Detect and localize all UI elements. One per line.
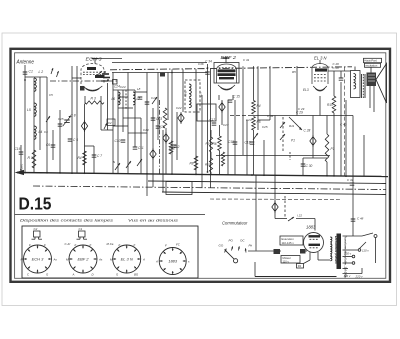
bus AVC top bbox=[110, 67, 352, 70]
wire v256 bbox=[255, 175, 257, 250]
svg-text:D: D bbox=[92, 273, 94, 277]
coil L6 bbox=[118, 92, 120, 105]
coil L9 bbox=[189, 84, 191, 97]
wire h108 bbox=[118, 107, 133, 109]
switch up3 bbox=[104, 123, 107, 129]
tube layout box bbox=[22, 226, 198, 278]
capacitor C15 bbox=[58, 124, 63, 126]
wire v252 bbox=[253, 130, 255, 175]
wire ech3 left blob bbox=[80, 86, 85, 91]
wire ech3 left bbox=[72, 77, 81, 79]
resistor R10 bbox=[332, 96, 336, 113]
wire ebf2 legs bbox=[219, 95, 233, 100]
wire v219 bbox=[219, 125, 221, 136]
wire v91 bbox=[84, 104, 86, 173]
wire h92 bbox=[135, 91, 147, 93]
resistor R3h bbox=[85, 101, 104, 104]
tube EL3N bbox=[312, 64, 328, 92]
svg-text:C10: C10 bbox=[115, 139, 121, 143]
gang link right bbox=[344, 67, 346, 176]
wire v211 bbox=[210, 130, 212, 137]
transformer laminations bbox=[362, 74, 366, 98]
wire antenna bbox=[24, 65, 26, 173]
wire v113 bbox=[112, 73, 114, 174]
capacitor C48 bbox=[351, 217, 364, 222]
wire h130 bbox=[101, 129, 113, 131]
diag to C28 bbox=[289, 117, 302, 130]
wire v210 bbox=[210, 69, 212, 188]
wire v283 dashed bbox=[282, 117, 284, 152]
svg-text:110 v: 110 v bbox=[362, 249, 369, 253]
wire h218b bbox=[296, 218, 315, 220]
svg-text:PO: PO bbox=[229, 239, 234, 243]
svg-text:C13: C13 bbox=[143, 128, 149, 132]
pins EBF2 labels bbox=[65, 242, 103, 277]
resistor R9 bbox=[209, 137, 212, 152]
osc padder box bbox=[113, 80, 118, 85]
switch secteur bbox=[362, 233, 377, 238]
capacitor C21 bbox=[339, 78, 344, 80]
capacitor C1 bbox=[23, 72, 28, 74]
rule under D15 bbox=[15, 214, 205, 216]
svg-text:F: F bbox=[134, 243, 136, 247]
pins ECH3 labels bbox=[21, 243, 58, 277]
page edge bbox=[2, 33, 397, 306]
ech3 grid arrow bbox=[97, 71, 102, 76]
capacitor C19 bbox=[250, 142, 255, 144]
trimmer icon C2 bbox=[32, 227, 43, 239]
svg-text:C 6: C 6 bbox=[73, 138, 78, 142]
gang C-ant bbox=[178, 112, 184, 124]
trimmer C3 bbox=[63, 116, 71, 126]
svg-text:F: F bbox=[44, 243, 46, 247]
svg-text:C 30: C 30 bbox=[306, 164, 313, 168]
svg-text:M.Ca: M.Ca bbox=[107, 242, 114, 246]
svg-text:R5: R5 bbox=[292, 70, 296, 74]
capacitor C16b bbox=[138, 97, 143, 99]
wire v243 bbox=[242, 66, 244, 155]
node ant bbox=[24, 79, 26, 81]
node b207 bbox=[207, 171, 209, 173]
wire hp2 bbox=[370, 68, 372, 73]
svg-text:R11: R11 bbox=[289, 124, 295, 128]
capacitor C11 bbox=[133, 147, 138, 149]
choke box bbox=[274, 249, 281, 254]
gang C-5 bbox=[150, 148, 156, 160]
resistor R5 bbox=[252, 117, 256, 131]
capacitor C9 bbox=[156, 126, 161, 128]
svg-text:R 3: R 3 bbox=[91, 97, 96, 101]
gang link bbox=[159, 100, 161, 174]
svg-text:130 v: 130 v bbox=[344, 252, 352, 256]
bus top3 bbox=[112, 62, 207, 64]
base ECH3 bbox=[24, 245, 52, 273]
svg-text:L6: L6 bbox=[112, 97, 116, 101]
capacitor C31 bbox=[347, 178, 354, 185]
wire l-col bbox=[33, 78, 35, 173]
node b334 bbox=[333, 175, 335, 177]
wire v315 top bbox=[314, 219, 316, 231]
wire v135 bbox=[134, 90, 136, 147]
node b346 bbox=[345, 175, 347, 177]
svg-text:C15: C15 bbox=[58, 117, 64, 121]
svg-text:A: A bbox=[155, 260, 158, 264]
resistor R2 bbox=[32, 150, 36, 168]
label Haut-Parleur box bbox=[364, 58, 382, 67]
execution box bbox=[280, 236, 303, 245]
svg-text:F: F bbox=[90, 243, 92, 247]
capacitor C34c bbox=[205, 72, 210, 74]
tube 1883 bbox=[304, 233, 324, 253]
wire v168 bbox=[167, 73, 169, 121]
capacitor C16c bbox=[145, 102, 150, 104]
wire v364 bbox=[363, 135, 365, 176]
svg-text:C1: C1 bbox=[29, 70, 33, 74]
switch S1 bbox=[46, 116, 50, 122]
node b72 bbox=[71, 172, 73, 174]
resistor R4 bbox=[252, 101, 256, 115]
wire h97 bbox=[118, 96, 128, 98]
svg-text:C 34: C 34 bbox=[205, 60, 212, 64]
resistor R4L bbox=[83, 151, 87, 165]
svg-text:C18: C18 bbox=[228, 140, 234, 144]
svg-text:L5: L5 bbox=[27, 108, 31, 112]
ground bus bbox=[15, 170, 389, 177]
switch up2 bbox=[57, 71, 59, 77]
wire el3n top bbox=[319, 60, 321, 64]
svg-text:R6: R6 bbox=[213, 142, 217, 146]
wire v275 bbox=[274, 116, 276, 216]
svg-text:C 28: C 28 bbox=[304, 129, 311, 133]
base EBF2 bbox=[69, 245, 97, 273]
speaker driver bbox=[367, 73, 377, 87]
node osc bbox=[171, 72, 173, 74]
switch I1 bbox=[288, 217, 294, 221]
svg-text:Vus en au dessous: Vus en au dessous bbox=[128, 219, 178, 223]
svg-text:C27: C27 bbox=[223, 123, 229, 127]
wire v270 bbox=[269, 66, 271, 120]
gang C-4 bbox=[310, 135, 316, 147]
coil L9b bbox=[189, 98, 191, 108]
wire v247 bbox=[246, 120, 248, 175]
svg-text:C1: C1 bbox=[79, 227, 83, 231]
svg-text:C23: C23 bbox=[246, 118, 252, 122]
node ebf2 in bbox=[207, 67, 209, 69]
power transformer core bbox=[337, 234, 342, 270]
tap lever bbox=[360, 242, 367, 249]
wire v72 bbox=[71, 66, 73, 173]
wire h126 bbox=[113, 125, 128, 127]
wire sec top bbox=[343, 235, 363, 237]
ech3 grid cluster bbox=[101, 71, 110, 81]
capacitor C7 bbox=[92, 146, 97, 173]
wire sec bottom bbox=[343, 268, 363, 274]
svg-text:C36: C36 bbox=[198, 62, 204, 66]
gang C-if bbox=[219, 101, 225, 113]
resistor R3b bbox=[163, 108, 167, 128]
wire v60 bbox=[59, 110, 61, 173]
svg-text:Transformateur d'alim. 110-245: Transformateur d'alim. 110-245v bbox=[343, 236, 347, 279]
wire v128 bbox=[127, 73, 129, 174]
outer frame bbox=[11, 49, 391, 282]
box below bus bbox=[166, 182, 192, 195]
gang C-osc bbox=[81, 120, 87, 132]
wire bottom power bbox=[255, 276, 337, 278]
gang C-2 bbox=[163, 132, 169, 144]
bus3 dashdot bbox=[33, 186, 386, 190]
coil L1 bbox=[34, 78, 36, 91]
svg-text:Disposition des contacts de: Disposition des contacts des lampes bbox=[20, 219, 113, 223]
svg-text:C 29: C 29 bbox=[298, 107, 305, 111]
wire v172 bbox=[171, 69, 173, 174]
wire v196 bbox=[195, 69, 197, 174]
svg-text:excitation: excitation bbox=[366, 64, 378, 68]
wire v327 bbox=[326, 116, 328, 135]
capacitor C12 bbox=[172, 145, 177, 147]
switch S7 bbox=[280, 134, 285, 140]
svg-text:R8: R8 bbox=[190, 162, 194, 166]
wire h158 bbox=[303, 157, 327, 159]
wire power feeds bbox=[275, 215, 287, 219]
if1 box bbox=[185, 80, 200, 112]
wire v334 bbox=[333, 71, 335, 96]
bus B+ bbox=[250, 115, 353, 117]
wire v123 bbox=[122, 90, 124, 132]
speaker wires bbox=[370, 86, 374, 112]
wire h155 bbox=[216, 155, 330, 157]
transformer primary bumps bbox=[330, 237, 332, 261]
svg-text:L4: L4 bbox=[39, 130, 43, 134]
svg-text:C 20: C 20 bbox=[333, 66, 340, 70]
svg-text:R2: R2 bbox=[298, 264, 302, 268]
svg-text:C9: C9 bbox=[161, 125, 165, 129]
bus2 bbox=[148, 181, 386, 184]
wire v77 bbox=[76, 66, 78, 173]
wire v264 bbox=[263, 140, 265, 175]
node b252 bbox=[251, 174, 253, 176]
wire v353 bbox=[352, 116, 354, 237]
svg-text:C 7: C 7 bbox=[97, 154, 102, 158]
node b25 bbox=[24, 172, 26, 174]
pins 1883 labels bbox=[155, 243, 190, 264]
svg-text:R 1: R 1 bbox=[28, 156, 33, 160]
svg-text:Enroulement primaire: Enroulement primaire bbox=[334, 236, 338, 264]
resistor box R2x bbox=[297, 264, 304, 269]
svg-text:R4: R4 bbox=[257, 104, 261, 108]
wire v177 bbox=[176, 112, 178, 160]
wire h133 bbox=[128, 132, 147, 134]
svg-text:F: F bbox=[29, 243, 31, 247]
tube EBF2 bbox=[217, 64, 237, 90]
svg-text:R10: R10 bbox=[327, 103, 333, 107]
wire h118 bbox=[123, 117, 141, 119]
speaker cone bbox=[376, 64, 387, 104]
switch S5 bbox=[253, 133, 258, 140]
svg-text:Commutateur: Commutateur bbox=[222, 221, 248, 226]
svg-text:F: F bbox=[119, 243, 121, 247]
capacitor C17L bbox=[212, 123, 217, 125]
coil L7 bbox=[133, 92, 135, 105]
svg-text:L 2: L 2 bbox=[39, 70, 44, 74]
svg-text:R4: R4 bbox=[78, 156, 82, 160]
potentiometer P1 bbox=[325, 134, 329, 162]
svg-text:S: S bbox=[113, 160, 115, 164]
svg-text:C 31: C 31 bbox=[347, 178, 354, 182]
node b172 bbox=[171, 173, 173, 175]
svg-text:A: A bbox=[142, 258, 145, 262]
wire v320 bbox=[319, 96, 321, 116]
wire v183 bbox=[182, 69, 184, 112]
svg-text:C 31: C 31 bbox=[243, 58, 250, 62]
wire ech3 legs bbox=[85, 96, 101, 104]
wire v346 bbox=[345, 100, 347, 176]
wire v202 bbox=[201, 95, 203, 188]
wire h71 out bbox=[328, 70, 351, 72]
tap 240 bbox=[343, 268, 349, 270]
svg-text:C 15: C 15 bbox=[233, 95, 240, 99]
capacitor C18 bbox=[233, 142, 238, 144]
wire v108 bbox=[107, 83, 109, 130]
wire v313 bbox=[312, 116, 314, 159]
svg-text:R5: R5 bbox=[257, 120, 261, 124]
svg-text:C6: C6 bbox=[46, 143, 50, 147]
svg-text:220 v: 220 v bbox=[355, 275, 364, 279]
wire v147 bbox=[146, 73, 148, 197]
capacitor C6b bbox=[68, 139, 73, 141]
wire v47 bbox=[46, 77, 48, 173]
svg-text:ECH 3: ECH 3 bbox=[86, 57, 102, 63]
wire v166 bbox=[165, 128, 167, 174]
node b264 bbox=[263, 174, 265, 176]
svg-text:C2: C2 bbox=[34, 227, 38, 231]
svg-text:EL 3 N: EL 3 N bbox=[314, 56, 327, 61]
trimmer icon C1 bbox=[77, 227, 88, 239]
svg-text:1883: 1883 bbox=[168, 259, 178, 264]
svg-text:C24: C24 bbox=[120, 85, 126, 89]
wire h120r bbox=[258, 119, 270, 121]
padder blob bbox=[160, 73, 165, 77]
wire h77 bbox=[25, 76, 47, 78]
switch S4b bbox=[152, 97, 157, 104]
svg-text:110 v: 110 v bbox=[283, 259, 290, 263]
svg-text:C2: C2 bbox=[108, 121, 112, 125]
wire v327b bbox=[326, 162, 328, 176]
svg-text:Moteur: Moteur bbox=[283, 256, 291, 260]
pins EL3N labels bbox=[107, 242, 146, 277]
anode cap EBF2 bbox=[223, 58, 230, 63]
coil core bbox=[125, 90, 127, 110]
svg-text:I 22: I 22 bbox=[297, 214, 302, 218]
node b147 bbox=[146, 173, 148, 175]
capacitor C30 bbox=[301, 158, 306, 176]
wire grid lead bbox=[96, 58, 122, 60]
svg-text:AVC: AVC bbox=[184, 90, 188, 98]
svg-text:C25: C25 bbox=[262, 125, 268, 129]
bus grid dashdot bbox=[50, 80, 118, 82]
svg-text:L8: L8 bbox=[137, 87, 141, 91]
wire hv line bbox=[248, 250, 307, 252]
capacitor C8 bbox=[151, 118, 156, 120]
svg-text:GO: GO bbox=[219, 244, 224, 248]
svg-text:C 8: C 8 bbox=[71, 114, 76, 118]
svg-text:P1: P1 bbox=[291, 139, 295, 143]
svg-text:EBF 2: EBF 2 bbox=[77, 257, 89, 262]
switch S4 bbox=[137, 159, 142, 166]
inner frame bbox=[15, 53, 386, 278]
svg-text:As: As bbox=[98, 258, 103, 262]
wire v228 bbox=[227, 100, 229, 175]
wire h115 ext bbox=[230, 115, 250, 117]
tap 130 bbox=[343, 252, 355, 258]
node b327 bbox=[326, 175, 328, 177]
capacitor C10 bbox=[121, 140, 126, 142]
wire v297 bbox=[296, 66, 298, 116]
svg-text:Terre: Terre bbox=[20, 163, 24, 171]
wire v40 bbox=[39, 77, 41, 150]
svg-text:110-125 v: 110-125 v bbox=[282, 241, 295, 245]
resistor R12 bbox=[169, 141, 173, 154]
resistor R6 bbox=[218, 136, 222, 151]
tube EBF2 box bbox=[214, 63, 239, 84]
trimbox bbox=[107, 119, 115, 126]
wire h145L bbox=[85, 145, 95, 147]
svg-text:C 48: C 48 bbox=[357, 217, 364, 221]
svg-text:C14: C14 bbox=[151, 96, 157, 100]
svg-text:F: F bbox=[165, 244, 167, 248]
capacitor C15b bbox=[228, 100, 233, 102]
switch S3 bbox=[126, 161, 131, 168]
wire v290 bbox=[289, 152, 291, 160]
gang C-3 bbox=[272, 201, 278, 213]
wire v207 bbox=[207, 64, 209, 172]
svg-text:C19: C19 bbox=[245, 141, 251, 145]
base 1883 bbox=[159, 248, 186, 275]
wire v118 bbox=[117, 90, 119, 174]
wire v101 bbox=[100, 99, 102, 130]
tap 110 bbox=[343, 249, 370, 253]
wire v285 low bbox=[284, 196, 286, 218]
wire rect legs bbox=[304, 252, 331, 264]
node b47 bbox=[46, 172, 48, 174]
capacitor C6 bbox=[51, 130, 56, 160]
switch up1 bbox=[51, 68, 53, 74]
svg-text:Antenne: Antenne bbox=[16, 60, 35, 66]
svg-text:C17: C17 bbox=[210, 118, 216, 122]
tube ECH3 bbox=[81, 64, 105, 91]
wire v235 bbox=[234, 100, 236, 175]
wire v253t bbox=[253, 66, 255, 100]
switch S2 bbox=[115, 163, 120, 170]
wire v341b bbox=[340, 82, 342, 176]
wire v141 bbox=[140, 118, 142, 174]
node b91 bbox=[84, 172, 86, 174]
wire v255b bbox=[254, 262, 256, 277]
wire hp1 bbox=[354, 67, 356, 71]
wire h90 bbox=[113, 89, 135, 91]
wire v222 bbox=[221, 100, 223, 125]
svg-text:F: F bbox=[75, 243, 77, 247]
svg-text:110 v: 110 v bbox=[344, 274, 351, 278]
svg-text:C4: C4 bbox=[44, 130, 48, 134]
tap 220 bbox=[343, 262, 355, 265]
wire v163 bbox=[162, 130, 164, 192]
bus top2 bbox=[112, 72, 207, 74]
choke box2 bbox=[300, 249, 306, 254]
moteur box bbox=[281, 256, 300, 264]
svg-text:D.15: D.15 bbox=[19, 194, 52, 214]
if2 box bbox=[197, 104, 216, 121]
svg-text:As: As bbox=[53, 258, 58, 262]
